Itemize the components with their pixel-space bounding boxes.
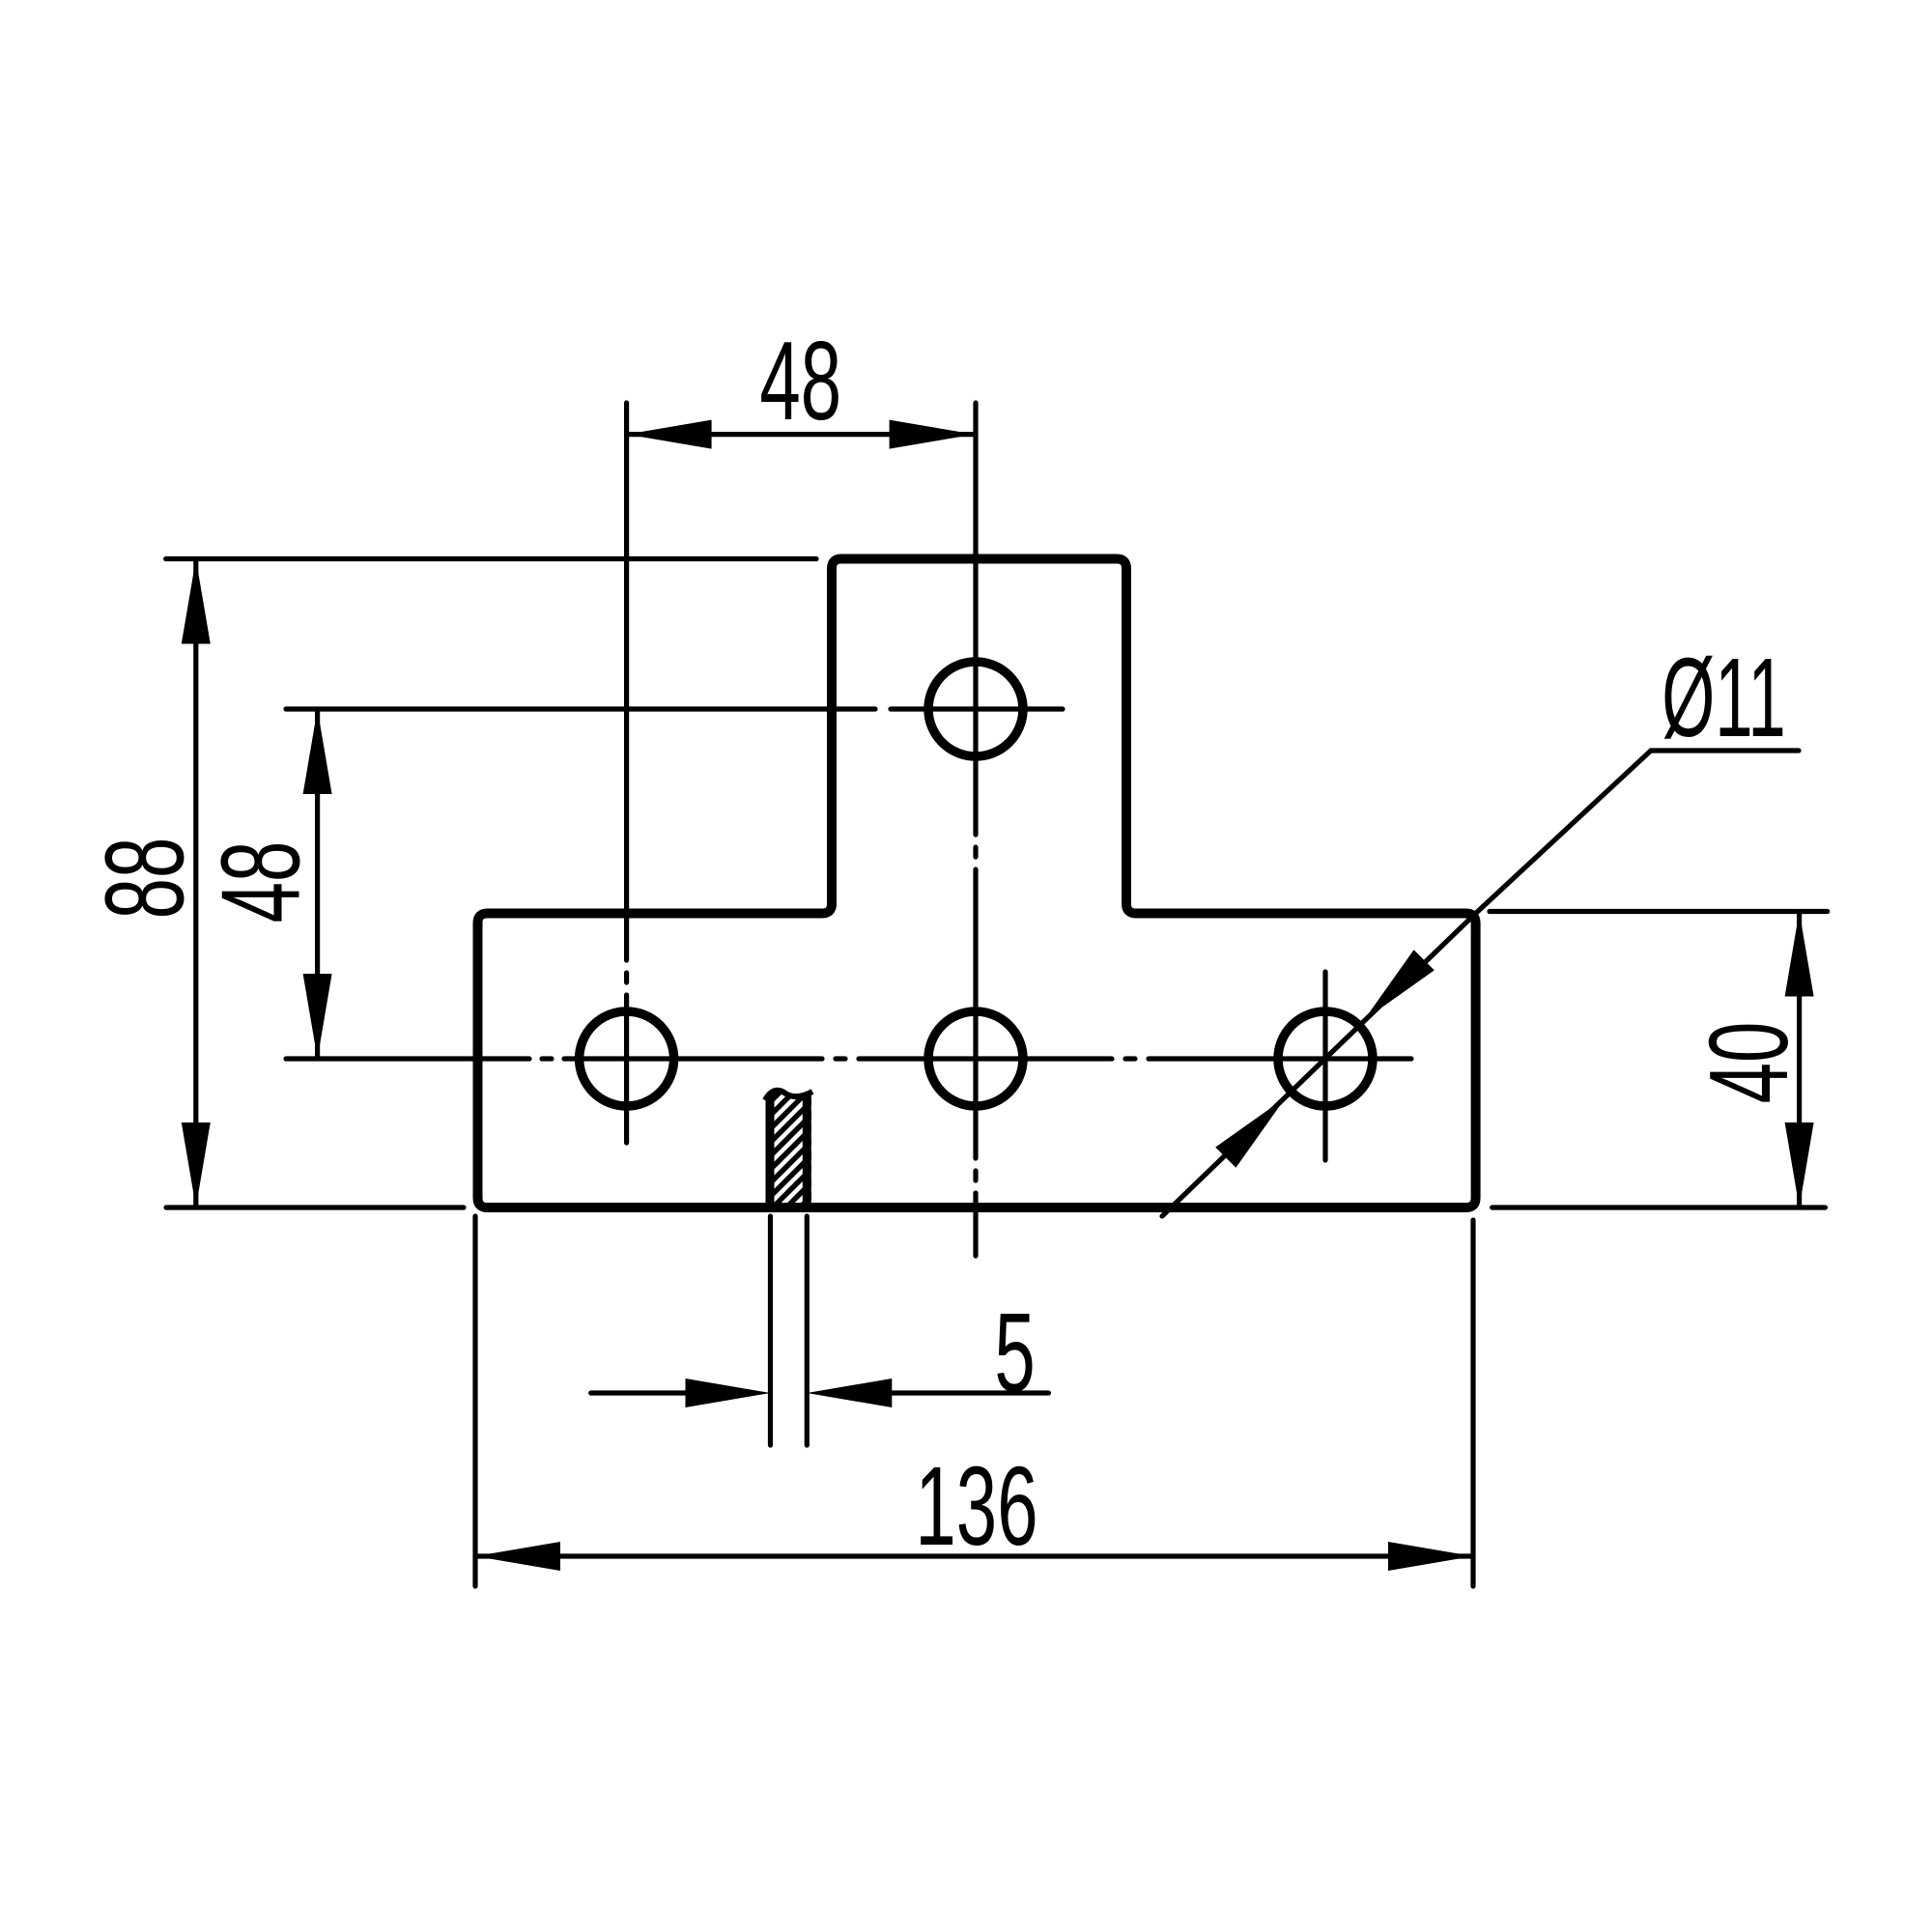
hole top (Ø11) — [928, 662, 1023, 756]
slot right edge — [803, 1095, 811, 1206]
dimension 136 bottom — [475, 1216, 1473, 1586]
label 48 left — [197, 841, 323, 923]
arrow 88 bottom — [182, 1122, 211, 1207]
arrow 48-top right — [890, 420, 975, 449]
label 5 — [994, 1290, 1035, 1415]
centerline horizontal through top hole / extension of left 48 dim — [286, 706, 1063, 711]
svg-text:Ø11: Ø11 — [1662, 636, 1786, 760]
arrow 136 left — [475, 1542, 560, 1571]
arrow 88 top — [182, 559, 211, 644]
svg-text:5: 5 — [994, 1290, 1035, 1415]
label 40 — [1686, 1022, 1811, 1104]
arrow 5 left (points right) — [686, 1378, 771, 1407]
svg-text:136: 136 — [915, 1443, 1037, 1569]
hole lower-left (Ø11) — [580, 1011, 674, 1106]
slot break (wavy) top line — [765, 1091, 812, 1100]
arrow 5 right (points left) — [807, 1378, 892, 1407]
centerline vertical through right hole — [1322, 972, 1327, 1160]
arrow 48-left top — [303, 709, 332, 794]
dimension 40 right — [1490, 912, 1828, 1208]
slot left edge — [766, 1094, 775, 1206]
dimension 88 left — [166, 559, 816, 1208]
centerline vertical through top and middle holes / extension of top 48 dim — [973, 403, 978, 1256]
centerline vertical through left hole / extension of top 48 dim — [624, 403, 629, 1143]
label 48 top — [759, 318, 841, 443]
label Ø11 — [1662, 636, 1786, 760]
arrow 48-left bottom — [303, 974, 332, 1059]
hole lower-middle (Ø11) — [928, 1011, 1023, 1106]
arrow 40 bottom — [1785, 1122, 1814, 1207]
arrow 40 top — [1785, 912, 1814, 997]
dimension 48 left (vertical) — [315, 709, 320, 1059]
svg-text:40: 40 — [1686, 1022, 1811, 1104]
centerline horizontal through lower holes / extension of left 48 dim — [286, 1056, 1411, 1061]
svg-text:48: 48 — [197, 841, 323, 923]
leader line for Ø11 — [1162, 751, 1799, 1216]
hatched slot section (5 wide) — [645, 1082, 939, 1213]
arrow 136 right — [1388, 1542, 1473, 1571]
dimension 48 top: extension overshoot handled by centerlines above — [627, 432, 975, 437]
label 136 — [915, 1443, 1037, 1569]
svg-text:48: 48 — [759, 318, 841, 443]
leader arrow lower (points to hole edge, up-right) — [1215, 1097, 1286, 1168]
plate outline (T-shaped part) — [478, 559, 1476, 1208]
dimension 5 (slot width) — [591, 1216, 1049, 1445]
svg-text:88: 88 — [81, 838, 207, 920]
leader arrow upper (points to hole edge, down-left) — [1364, 950, 1435, 1020]
arrow 48-top left — [627, 420, 712, 449]
label 88 — [81, 838, 207, 920]
hole lower-right (Ø11) — [1278, 1011, 1373, 1106]
